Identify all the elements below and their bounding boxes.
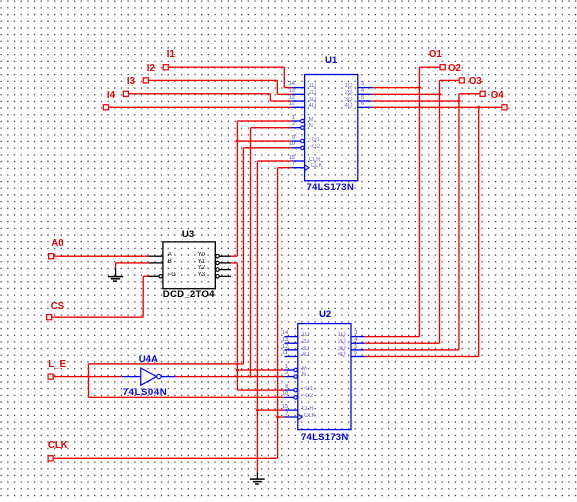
U1 pin name M [309,117,314,123]
wire U2 2Q to net O2 [364,343,439,344]
wire inverter output to U2 pin2 N [175,376,284,377]
label L_E [48,359,66,370]
label I3 [127,76,135,87]
U2 pin 5 (3Q) stub [351,349,364,350]
label U4A value 74LS04N [123,387,167,398]
label U4A refdes [139,354,158,365]
input terminal L_E [48,374,53,379]
label CLK [48,440,68,451]
U4A output stub [161,376,175,377]
wire net I1 vertical [284,67,285,87]
U3 pin A stub [149,256,163,257]
wire U2 pin7 CLK [278,416,285,417]
U2 pin 14 (1D) stub [284,336,297,337]
U2 pin 3 (1Q) stub [351,336,364,337]
wire CS to U3 pin G [143,276,148,277]
wire net I3 horizontal [129,93,270,94]
U1 pin name 2D [309,90,317,96]
junction O4 at U1 4Q [477,105,481,109]
wire U1 2Q to node O2 [372,94,440,95]
ground GND1 near U3 [115,269,116,277]
U3 pin name Y3 [198,272,205,278]
U2 pin name 1Q [338,332,346,338]
wire U2 pin9 G1 [237,389,284,390]
wire net O3 horizontal to terminal [459,93,480,94]
wire U2 3Q to net O3 [364,349,459,350]
label U3 refdes [182,229,194,240]
U1 pin 15 (CLR) stub [291,160,304,161]
wire net L_E upper horizontal [89,363,244,364]
U2 pin 7 (CLK) stub [284,416,297,417]
U1 pin name N [309,123,313,129]
U2 pin number 5 [354,344,357,350]
U1 pin number 6 [361,101,364,107]
wire Y1 horizontal [231,262,237,263]
U1 pin name 1Q [344,83,352,89]
U1 pin 13 (2D) stub [291,94,304,95]
label I4 [107,90,115,101]
wire U2 pin15 CLR [257,409,284,410]
U4A input stub [122,376,141,377]
junction at U1 pin9 [235,139,239,143]
U1 pin 4 (2Q) stub [358,94,372,95]
U1 pin number 12 [289,95,295,101]
U2 pin name 4Q [338,352,346,358]
U1 pin name ~G2 [309,144,321,150]
wire net N vertical [250,128,251,378]
label O1 [429,49,442,60]
U2 pin number 11 [282,350,288,356]
wire Y0 vertical to U1 [237,121,238,256]
U2 pin 13 (2D) stub [284,343,297,344]
ground GND2 at CLR net [257,472,258,479]
U1 pin number 2 [292,121,295,127]
U2 pin name ~G1 [302,386,314,392]
wire U1 pin15 CLR [257,160,291,161]
U2 pin 10 (~G2) stub [284,397,294,398]
wire CS vertical [143,276,144,317]
wire net I3 to U1 pin12 [270,100,291,101]
U2 pin number 12 [282,344,288,350]
U1 pin 10 (~G2) stub [291,147,301,148]
wire U1 pin9 G1 [237,140,291,141]
U2 pin number 4 [354,337,357,343]
U3 pin name B [168,259,172,265]
wire net I2 horizontal [149,80,277,81]
label CS [51,301,64,312]
wire U1 pin10 G2 [243,147,291,148]
U2 pin 2 (N) stub [284,376,294,377]
U1 pin name 1D [309,83,317,89]
U3 pin name Y1 [198,259,205,265]
U2 pin 6 (4Q) stub [351,356,364,357]
U2 pin number 6 [354,350,357,356]
U2 pin 1 (M) stub [284,369,294,370]
wire net L_E vertical right [243,148,244,364]
wire A0 to U3 pin A [54,256,148,257]
output terminal O1 [440,65,445,70]
U3 pin Y3 stub [216,275,220,279]
input terminal I3 [123,91,128,96]
U2 pin number 3 [354,330,357,336]
U1 pin name 3Q [344,97,352,103]
U2 pin name 3Q [338,346,346,352]
wire U2 1Q to net O1 [364,336,419,337]
U1 pin number 7 [292,161,295,167]
label U2 refdes [319,309,331,320]
U4A output bubble [157,374,161,378]
U1 pin name 2Q [344,90,352,96]
wire net O4 vertical [478,107,479,356]
label O2 [448,63,461,74]
U1 pin number 14 [289,81,295,87]
U2 pin name 2Q [338,339,346,345]
label U3 value DCD_2TO4 [163,289,215,300]
label A0 [51,238,63,249]
U1 pin number 11 [289,101,295,107]
wire net CLK vertical [277,168,278,459]
U2 pin number 15 [282,404,288,410]
wire U1 pin7 CLK [278,167,292,168]
wire Y0 horizontal [231,256,237,257]
U2 pin number 10 [282,391,288,397]
wire U2 pin1 M [237,369,284,370]
IC U2 74LS173N body [298,324,351,430]
IC U1 74LS173N body [305,75,358,181]
U1 pin 11 (4D) stub [291,107,304,108]
U2 pin 9 (~G1) stub [284,389,294,390]
U1 pin 1 (M) stub [291,120,301,121]
U2 pin name CLK [304,413,316,419]
wire net I3 vertical [270,94,271,101]
U2 pin name ~G2 [302,393,314,399]
wire net L_E branch vertical [88,364,89,397]
U1 pin number 5 [361,95,364,101]
U3 pin Y0 stub [216,254,220,258]
U1 pin 7 (CLK) stub [291,167,304,168]
U1 pin number 10 [289,141,295,147]
U3 pin Y2 stub [216,268,220,272]
U1 pin 5 (3Q) stub [358,100,372,101]
U1 pin 6 (4Q) stub [358,107,372,108]
wire net O1 horizontal to terminal [419,67,439,68]
U1 pin number 15 [289,155,295,161]
U1 pin name CLK [311,163,323,169]
input terminal I4 [103,105,108,110]
U3 pin Y1 stub [216,261,220,265]
label U1 refdes [325,55,337,66]
label I1 [167,49,175,60]
junction O2 at U1 2Q [438,92,442,96]
junction O3 at U1 3Q [457,99,461,103]
wire U1 4Q to terminal O4 [372,107,502,108]
U2 pin 15 (CLR) stub [284,409,297,410]
wire U1 1Q to node O1 [372,87,420,88]
wire L_E to inverter input [54,376,122,377]
output terminal O4 [502,105,507,110]
U1 pin 2 (N) stub [291,127,301,128]
U2 pin number 13 [282,337,288,343]
junction at U2 pin15 [255,408,259,412]
U1 pin name 3D [309,97,317,103]
output terminal O2 [459,78,464,83]
U1 pin number 13 [289,88,295,94]
wire net I1 horizontal [169,67,284,68]
U1 pin number 9 [292,135,295,141]
junction at U2 pin7 [276,415,280,419]
U1 pin number 3 [361,81,364,87]
IC U3 DCD_2TO4 body [163,242,215,289]
U1 pin 9 (~G1) stub [291,140,301,141]
wire U1 pin1 M [237,120,291,121]
label O3 [469,76,482,87]
input terminal A0 [49,254,54,259]
label I2 [147,63,155,74]
wire ground stub [115,263,116,269]
wire net CLR vertical [257,161,258,472]
U1 pin number 1 [292,115,295,121]
wire net I1 to U1 pin14 [284,87,291,88]
wire U2 4Q to net O4 [364,356,478,357]
U2 pin 11 (4D) stub [284,356,297,357]
wire net O2 vertical [439,80,440,343]
label O4 [491,90,504,101]
wire U2 pin10 G2 [89,397,285,398]
U2 pin name 2D [302,339,310,345]
label U1 value 74LS173N [307,182,354,193]
junction O1 at U1 1Q [417,86,421,90]
input terminal I2 [143,78,148,83]
wire net I2 to U1 pin13 [277,94,291,95]
U2 pin number 14 [282,330,288,336]
U3 pin name Y2 [198,265,205,271]
U1 pin name 4Q [344,103,352,109]
U2 pin number 9 [285,384,288,390]
wire net I4 horizontal to U1 pin11 [109,107,291,108]
wire U1 3Q to node O3 [372,100,459,101]
gate U4A 74LS04N inverter triangle [141,368,157,385]
U2 pin 4 (2Q) stub [351,343,364,344]
input terminal CLK [48,456,53,461]
U1 pin number 4 [361,88,364,94]
U1 pin 3 (1Q) stub [358,87,372,88]
wire net O3 vertical [458,94,459,350]
U2 pin name 3D [302,346,310,352]
wire CS horizontal [52,317,143,318]
U2 pin name 1D [302,332,310,338]
U2 pin name N [302,372,306,378]
U2 pin name CLR [302,406,314,412]
U1 pin name 4D [309,103,317,109]
U1 pin 12 (3D) stub [291,100,304,101]
junction at U2 pin1 [235,368,239,372]
U2 pin number 7 [285,411,288,417]
wire Y1 vertical to U2 [237,263,238,390]
U3 pin name Y0 [198,252,205,258]
U2 pin number 1 [285,364,288,370]
U3 pin name A [168,252,172,258]
wire CLK horizontal [54,458,278,459]
U2 pin number 2 [285,370,288,376]
U3 pin B stub [149,262,163,263]
U1 pin name ~G1 [309,137,321,143]
U2 pin name 4D [302,352,310,358]
wire U1 pin2 N [251,127,292,128]
U2 pin name M [302,366,307,372]
input terminal CS [47,315,52,320]
wire U3 pin B to ground [116,262,149,263]
wire net O1 vertical [419,67,420,336]
U1 pin name CLR [309,157,321,163]
wire net I2 vertical [277,80,278,94]
input terminal I1 [163,65,168,70]
wire net O2 horizontal to terminal [440,80,459,81]
U1 pin 14 (1D) stub [291,87,304,88]
U3 pin name ~G [168,272,176,278]
label U2 value 74LS173N [301,432,348,443]
output terminal O3 [480,91,485,96]
U3 pin ~G stub [148,276,159,277]
U2 pin 12 (3D) stub [284,349,297,350]
